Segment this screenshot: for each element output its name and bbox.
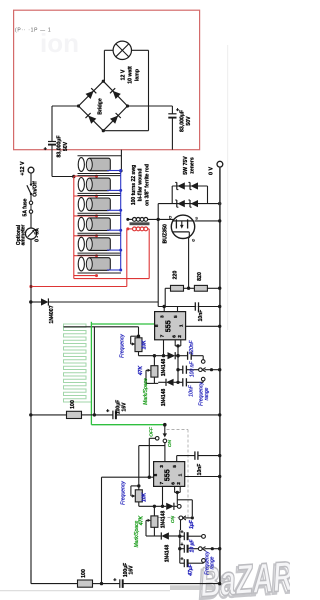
switch ON modulation link <box>170 515 194 523</box>
svg-text:100: 100 <box>70 400 76 409</box>
capacitor 100uF 16V No1 <box>94 400 221 419</box>
svg-text:ON: ON <box>167 439 173 447</box>
svg-text:1N4007: 1N4007 <box>49 305 55 323</box>
svg-text:bi-filar wound: bi-filar wound <box>138 169 144 202</box>
svg-text:1: 1 <box>178 473 184 476</box>
electrolytic capacitor bank C2 <box>74 176 122 198</box>
svg-text:220nF: 220nF <box>189 339 195 355</box>
0V rail <box>219 167 221 585</box>
inductor primary winding (black) <box>126 218 175 222</box>
wire 555 No1 pins 6-2 loop <box>175 340 181 348</box>
diode 1N4007 <box>29 298 158 323</box>
wire bridge right corner to right cap <box>128 106 173 114</box>
switch Frequency range No1 <box>199 360 222 406</box>
svg-text:3: 3 <box>159 465 165 468</box>
potentiometer Frequency 10K No1 <box>119 327 147 358</box>
faint caption text in red box <box>15 28 79 59</box>
svg-text:2: 2 <box>176 482 182 485</box>
svg-text:OFF: OFF <box>148 426 154 437</box>
resistor Mark/Space 47K No2 <box>134 505 161 548</box>
svg-text:5A fuse: 5A fuse <box>22 198 28 216</box>
svg-text:555: 555 <box>162 469 171 481</box>
svg-text:16V: 16V <box>121 402 127 412</box>
capacitor 47uF No2 <box>180 556 206 576</box>
svg-text:+12 V: +12 V <box>20 161 26 176</box>
svg-text:+: + <box>113 577 116 583</box>
wire pot feed down to 100R node <box>93 327 96 417</box>
svg-text:+: + <box>180 556 183 562</box>
wire 555 No1 pin7 stub <box>162 340 165 358</box>
resistor 100 No1 <box>31 400 94 418</box>
svg-text:1N4148: 1N4148 <box>161 511 167 529</box>
svg-text:lamp: lamp <box>134 69 140 81</box>
svg-text:zeners: zeners <box>190 157 196 174</box>
blue negative bus of capacitor bank <box>120 171 122 271</box>
svg-text:+: + <box>106 409 109 415</box>
dashed modulation box <box>153 430 189 518</box>
svg-text:+: + <box>180 529 183 535</box>
wire timing node vertical No1 <box>176 346 179 382</box>
svg-text:1N4148: 1N4148 <box>165 545 171 563</box>
wire 555 No2 pin1 to rail <box>185 475 222 478</box>
electrolytic capacitor bank C4 <box>74 215 122 237</box>
svg-text:D: D <box>169 215 172 219</box>
svg-text:Mark/Space: Mark/Space <box>134 520 140 547</box>
svg-text:1N4148: 1N4148 <box>161 359 167 377</box>
wire lamp left to bridge top <box>104 50 113 81</box>
svg-text:47µF: 47µF <box>188 563 194 576</box>
svg-text:220: 220 <box>173 271 179 280</box>
wire 555 No2 pin5 stub and cap 10nF <box>177 451 222 475</box>
wire ON link to caps bus <box>178 520 181 563</box>
fuse 5A <box>22 198 32 228</box>
diode 1N4148 a No2 <box>161 503 178 529</box>
svg-text:On/Off: On/Off <box>33 181 39 197</box>
svg-text:83,000µF: 83,000µF <box>180 110 186 132</box>
resistor 820 <box>189 272 222 291</box>
capacitor 83000uF 50V right <box>168 107 192 149</box>
svg-text:10nF: 10nF <box>197 464 203 476</box>
svg-text:6: 6 <box>171 482 177 485</box>
capacitor 10uF No2 <box>180 539 202 553</box>
svg-text:8: 8 <box>153 473 159 476</box>
capacitor 100nF No1 <box>178 361 199 378</box>
svg-text:10K: 10K <box>142 492 148 502</box>
wire MOSFET source to 0V rail <box>195 219 222 222</box>
wire left cap to cap-bank bus <box>52 145 76 179</box>
svg-text:820: 820 <box>197 272 203 281</box>
svg-text:10nF: 10nF <box>189 384 195 396</box>
svg-text:50V: 50V <box>186 116 192 126</box>
potentiometer Frequency 10K No2 <box>121 481 148 507</box>
resistor 220 <box>165 271 188 307</box>
svg-text:ion: ion <box>40 28 79 58</box>
diode 1N4148 b No2 <box>161 532 180 562</box>
svg-text:1µF: 1µF <box>189 519 195 529</box>
resistor Mark/Space 47K No1 <box>138 354 158 405</box>
wire 555 No1 pin3 stub <box>163 307 165 312</box>
switch OFF/ON modulation <box>148 423 173 477</box>
switch On/Off <box>27 173 39 201</box>
svg-text:ammeter: ammeter <box>20 225 26 246</box>
op-amp/timer 555 No1 <box>154 312 186 340</box>
wire 555 No2 pins 6-2 loop <box>175 486 181 494</box>
svg-text:10 µF: 10 µF <box>190 539 196 553</box>
watermark graffiti <box>196 552 295 600</box>
svg-text:0 - 5A: 0 - 5A <box>34 228 40 242</box>
svg-text:Frequency: Frequency <box>121 481 127 505</box>
wire ON contact to pin3 and pot feed <box>139 443 165 486</box>
wire lamp right to bridge bottom <box>103 50 148 130</box>
red wire from ammeter line to secondary left <box>29 230 126 289</box>
svg-text:3: 3 <box>160 315 166 318</box>
svg-text:5: 5 <box>172 465 178 468</box>
capacitor 220nF No1 <box>188 339 204 359</box>
capacitor 83000uF 50V left <box>44 135 69 157</box>
wire MOSFET gate down to resistors <box>187 232 190 290</box>
svg-text:16V: 16V <box>129 565 135 575</box>
transistor BUZ350 MOSFET <box>163 215 199 243</box>
electrolytic capacitor bank C5 <box>74 235 122 257</box>
capacitor 100uF 16V No2 <box>102 563 222 588</box>
svg-text:range: range <box>210 556 216 569</box>
svg-text:ON: ON <box>170 515 176 523</box>
bridge rectifier <box>77 80 129 133</box>
wire mark-space row No2 <box>139 505 166 507</box>
diode 1N4148 b No1 <box>158 379 180 407</box>
svg-text:1N4148: 1N4148 <box>161 389 167 407</box>
wire red-box stub to capacitor bank <box>119 150 122 173</box>
wire serpentine to pot feed <box>64 326 139 328</box>
svg-text:10 watt: 10 watt <box>127 66 133 84</box>
svg-text:on 3/8" ferrite rod: on 3/8" ferrite rod <box>144 164 150 206</box>
svg-text:7: 7 <box>159 482 165 485</box>
svg-text:Bridge: Bridge <box>98 98 104 115</box>
svg-text:BUZ350: BUZ350 <box>163 224 169 243</box>
electrolytic capacitor bank C3 <box>74 196 122 218</box>
svg-text:10K: 10K <box>141 340 147 350</box>
svg-text:2: 2 <box>177 335 183 338</box>
zener diodes 5W 75V <box>158 156 221 207</box>
green wire to 555 No1 pin 8 <box>91 323 154 325</box>
terminal 0V <box>209 161 223 175</box>
svg-text:6: 6 <box>171 335 177 338</box>
wire supply node to 0V-side rail <box>158 305 221 308</box>
resistor 100 No2 <box>31 569 103 587</box>
red wire secondary to bus <box>74 229 149 279</box>
serpentine wire link <box>64 324 92 402</box>
wire 555 No1 pin5 stub <box>177 307 179 312</box>
svg-text:100: 100 <box>81 569 87 578</box>
wire drain junction <box>157 204 160 307</box>
ferrite rod <box>130 222 150 225</box>
svg-text:10nF: 10nF <box>198 310 204 322</box>
svg-text:47K: 47K <box>138 366 144 377</box>
svg-text:G: G <box>192 239 195 243</box>
wire mark-space row No1 <box>139 355 168 357</box>
svg-text:50V: 50V <box>63 141 69 151</box>
diode 1N4148 a No1 <box>161 352 187 376</box>
svg-text:7: 7 <box>160 334 166 337</box>
wire 555 No2 pin8 to supply <box>102 476 154 584</box>
op-amp/timer 555 No2 <box>153 462 185 487</box>
capacitor 10nF range No1 <box>178 378 203 397</box>
inductor secondary winding (red) <box>126 227 149 231</box>
svg-text:1: 1 <box>178 324 184 327</box>
wire timing node vertical No2 <box>177 492 192 516</box>
svg-text:555: 555 <box>164 320 173 332</box>
wire bridge left corner to left cap <box>52 106 79 142</box>
svg-text:0 V: 0 V <box>209 167 215 175</box>
svg-text:+: + <box>44 147 47 153</box>
red positive bus of capacitor bank <box>73 177 75 279</box>
inductor bifilar coil label <box>131 164 151 206</box>
svg-text:Frequency: Frequency <box>119 334 125 358</box>
watermark band <box>0 585 221 590</box>
svg-text:range: range <box>204 387 210 400</box>
svg-text:100 nF: 100 nF <box>189 361 195 378</box>
test-rig red boundary box <box>14 10 200 150</box>
switch Frequency range No2 <box>202 547 221 575</box>
capacitor 10nF control No1 <box>195 302 204 321</box>
main left supply wire <box>29 239 32 583</box>
svg-text:+: + <box>180 542 183 548</box>
svg-text:100 turns 22 swg: 100 turns 22 swg <box>131 165 137 205</box>
terminal +12V <box>20 161 34 176</box>
svg-text:8: 8 <box>154 324 160 327</box>
electrolytic capacitor bank C1 <box>74 156 122 178</box>
ammeter optional 0-5A <box>16 224 41 245</box>
svg-text:83,000µF: 83,000µF <box>56 135 62 157</box>
green wire down to modulation switch <box>91 322 164 425</box>
lamp 12V 10 watt <box>113 41 140 84</box>
contact circle timing No2 <box>177 505 181 509</box>
wire 555 No2 pin7 stub <box>161 486 164 508</box>
svg-text:5W 75V: 5W 75V <box>183 156 189 175</box>
capacitor 1uF No2 <box>180 519 206 540</box>
svg-text:12 V: 12 V <box>120 69 126 80</box>
svg-text:Mark/Space: Mark/Space <box>143 378 149 405</box>
wire 555 No1 pin1 to rail <box>186 325 222 328</box>
faint scan line <box>227 45 229 330</box>
svg-text:5: 5 <box>173 315 179 318</box>
electrolytic capacitor bank C6 <box>74 255 122 277</box>
